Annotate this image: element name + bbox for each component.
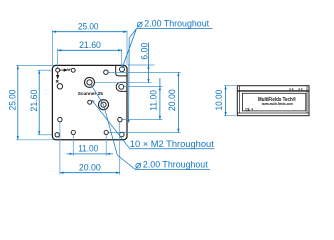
svg-text:www.multi-fields.com: www.multi-fields.com bbox=[261, 101, 293, 106]
hole M bbox=[71, 130, 75, 134]
leader diameter 2.00 top bbox=[122, 17, 212, 68]
hole K bbox=[118, 117, 122, 121]
boss I outer bbox=[99, 100, 109, 110]
dimension 21.60 left bbox=[28, 70, 52, 135]
dimension 10.00 side view bbox=[213, 86, 236, 116]
svg-text:Scanner 25: Scanner 25 bbox=[78, 91, 104, 96]
extension line from hole N for 20.00 right bbox=[109, 132, 181, 134]
hole E tab bbox=[120, 67, 125, 72]
hole J bbox=[58, 117, 62, 121]
extension line top edge for 6.00 bbox=[128, 64, 154, 66]
extension line from hole K for 11.00 right bbox=[122, 119, 162, 121]
hole B bbox=[71, 68, 75, 72]
hole N bbox=[104, 130, 108, 134]
svg-text:21.60: 21.60 bbox=[79, 39, 101, 50]
side view band line 2 bbox=[237, 90, 309, 92]
svg-text:2.00 Throughout: 2.00 Throughout bbox=[143, 158, 208, 169]
hole L bbox=[55, 133, 59, 137]
hole F slot bbox=[119, 84, 124, 89]
svg-text:10.00: 10.00 bbox=[213, 90, 224, 111]
hole A top-left origin bbox=[56, 68, 60, 72]
svg-text:11.00: 11.00 bbox=[78, 142, 98, 153]
dimension 11.00 bottom bbox=[67, 135, 114, 156]
side view bottom inner line bbox=[237, 112, 309, 114]
hole C bbox=[57, 84, 62, 89]
plate outline bbox=[52, 65, 127, 139]
extension line from slot hole F for 11.00 right bbox=[124, 86, 162, 88]
side view outer body bbox=[237, 86, 309, 116]
hole H bbox=[88, 100, 92, 104]
dimension 6.00 right bbox=[138, 43, 149, 83]
extension line from boss G for 6.00 bbox=[92, 82, 151, 84]
tab cut top-right bbox=[116, 65, 127, 76]
svg-text:20.00: 20.00 bbox=[166, 89, 177, 111]
dimension 11.00 right bbox=[147, 78, 161, 120]
dimension 20.00 right bbox=[166, 72, 180, 132]
side view label plate bbox=[242, 93, 305, 111]
boss G outer bbox=[85, 77, 95, 87]
side view band line 1 bbox=[237, 89, 309, 91]
svg-text:25.00: 25.00 bbox=[6, 90, 17, 111]
svg-text:25.00: 25.00 bbox=[78, 21, 99, 32]
svg-text:10 × M2 Throughout: 10 × M2 Throughout bbox=[130, 138, 214, 149]
origin marker v tick bbox=[67, 69, 70, 71]
hole O bbox=[120, 132, 125, 137]
svg-text:21.60: 21.60 bbox=[28, 90, 39, 112]
boss I inner hole bbox=[101, 102, 106, 107]
side view inner wall left bbox=[239, 86, 241, 113]
side view inner wall right bbox=[306, 86, 308, 113]
dimension 25.00 left bbox=[6, 65, 54, 139]
svg-text:20.00: 20.00 bbox=[79, 161, 101, 172]
side view top dots bbox=[289, 89, 302, 90]
origin marker arrows bbox=[57, 69, 67, 78]
dimension 20.00 bottom bbox=[60, 122, 120, 175]
svg-text:6.00: 6.00 bbox=[138, 43, 149, 60]
leader vertical branch to lower right bbox=[128, 29, 137, 124]
boss G inner hole bbox=[87, 80, 92, 85]
extension line from hole D for 20.00 right bbox=[109, 71, 181, 73]
leader diameter 2.00 bottom bbox=[91, 85, 210, 170]
leader 10xM2 bbox=[92, 100, 215, 149]
slot cut right bbox=[116, 82, 127, 91]
svg-text:2.00 Throughout: 2.00 Throughout bbox=[144, 17, 209, 28]
svg-text:CE ▼: CE ▼ bbox=[245, 107, 253, 111]
svg-text:11.00: 11.00 bbox=[147, 90, 158, 111]
dimension 25.00 top bbox=[52, 21, 127, 66]
origin marker x tick bbox=[56, 80, 59, 83]
hole D bbox=[104, 70, 108, 74]
dimension 21.60 top bbox=[58, 39, 122, 68]
